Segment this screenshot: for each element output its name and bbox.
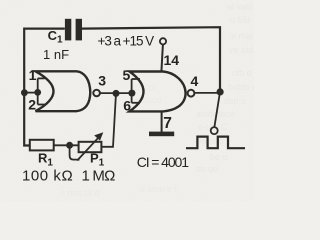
svg-text:ds qe: ds qe: [196, 164, 218, 174]
svg-text:4: 4: [191, 73, 199, 89]
svg-text:7: 7: [163, 115, 172, 132]
svg-text:be o: be o: [210, 152, 228, 162]
svg-text:5: 5: [123, 67, 131, 83]
svg-text:o smo e t: o smo e t: [140, 184, 178, 194]
svg-text:al valo: al valo: [227, 2, 253, 12]
svg-text:1: 1: [29, 67, 37, 83]
svg-text:1 MΩ: 1 MΩ: [82, 168, 116, 185]
svg-text:6: 6: [123, 98, 131, 114]
svg-text:+3 a +15 V: +3 a +15 V: [98, 34, 155, 49]
svg-text:bidds e: bidds e: [228, 82, 254, 92]
svg-text:3: 3: [98, 73, 106, 89]
svg-text:2: 2: [28, 97, 36, 113]
svg-text:CI = 4001: CI = 4001: [137, 154, 190, 170]
svg-text:14: 14: [164, 52, 180, 68]
svg-text:ve obl: ve obl: [229, 45, 253, 55]
svg-text:e pos ta d: e pos ta d: [60, 188, 100, 198]
svg-text:dsp o: dsp o: [224, 96, 246, 106]
svg-text:o 65t: o 65t: [230, 15, 251, 25]
svg-text:100 kΩ: 100 kΩ: [22, 168, 73, 185]
svg-text:ctb d: ctb d: [232, 68, 252, 78]
svg-text:e mais: e mais: [231, 31, 254, 41]
svg-text:1 nF: 1 nF: [43, 47, 69, 62]
